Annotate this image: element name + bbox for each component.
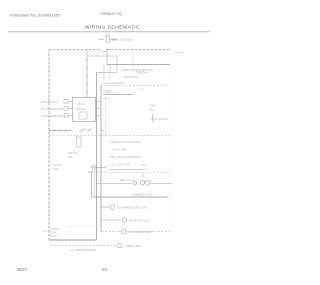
svg-text:DEF TSTAT: DEF TSTAT <box>124 75 139 79</box>
door switch contacts <box>79 129 93 132</box>
cord strain relief loop <box>100 50 107 52</box>
lamp labels column <box>110 140 141 167</box>
damper switch <box>150 115 168 123</box>
fuse holder <box>77 137 82 147</box>
wire branch y172.5 dashed <box>97 172 172 174</box>
control board right pins <box>95 102 101 116</box>
svg-text:9V: 9V <box>150 108 154 112</box>
svg-text:L1 N G: L1 N G <box>175 51 185 55</box>
wire drop (x117) <box>116 56 118 73</box>
svg-text:MTR MONITOR D: MTR MONITOR D <box>41 114 66 118</box>
wire drop (x133) <box>132 50 134 73</box>
wire L1 bus (x87) <box>86 50 88 98</box>
svg-text:( ) 120V 2W: ( ) 120V 2W <box>110 148 126 152</box>
svg-text:REF LIGHT 40W 60HZ: REF LIGHT 40W 60HZ <box>110 155 141 159</box>
cabinet boundary bottom edge <box>49 239 97 241</box>
svg-text:COLD CONTROL: COLD CONTROL <box>103 81 125 85</box>
svg-text:Publication No. 5995421257: Publication No. 5995421257 <box>10 13 61 18</box>
svg-text:3R 5L: 3R 5L <box>78 102 85 106</box>
compressor terminal text <box>50 227 59 238</box>
wire neutral bus (x96.5) <box>96 73 98 241</box>
run capacitor <box>90 165 106 171</box>
overload protector circles <box>133 180 150 185</box>
evaporator fan motor <box>101 218 127 223</box>
svg-text:DEFROST HEATER 120V: DEFROST HEATER 120V <box>122 68 153 72</box>
svg-text:( ) ( ) 120V SW: ( ) ( ) 120V SW <box>110 163 130 167</box>
wire drop dashed (x105.5) <box>105 98 107 136</box>
svg-text:L1 4 3: L1 4 3 <box>103 97 111 101</box>
bottom dashed stub y226.5 <box>68 226 101 228</box>
wire branch y56 <box>87 55 117 57</box>
wire branch y64.5 (main light circuit) <box>107 64 170 66</box>
svg-text:SW: SW <box>53 167 58 171</box>
wire drop to freezer branch (x107) <box>106 50 108 65</box>
svg-text:COND FAN 120V: COND FAN 120V <box>128 230 151 234</box>
wire line bus (x101) <box>100 86 102 232</box>
right column labels <box>150 104 157 112</box>
cabinet boundary top edge <box>49 49 172 51</box>
connector block labels <box>41 100 66 118</box>
defrost heater element <box>136 71 148 74</box>
svg-text:WIRING SCHEMATIC: WIRING SCHEMATIC <box>85 25 140 31</box>
control board pins <box>76 102 87 111</box>
defrost timer motor <box>51 243 122 248</box>
wire branch y72.5 <box>97 72 118 74</box>
bus tick marks <box>86 60 89 92</box>
overload wire <box>150 183 172 185</box>
wire branch y130.5 <box>49 130 73 132</box>
connector pin boxes <box>64 100 73 118</box>
svg-text:DC SOLENOID L: DC SOLENOID L <box>41 107 65 111</box>
lamp wire y169.5 <box>110 169 146 171</box>
svg-text:EVAP FAN 12V: EVAP FAN 12V <box>129 219 150 223</box>
right labels mid <box>141 163 146 178</box>
cabinet boundary right edge <box>171 50 173 233</box>
svg-text:120V 60HZ: 120V 60HZ <box>120 38 134 42</box>
wire stub y172 <box>88 171 97 173</box>
svg-text:ALL WIRING SHOWN: ALL WIRING SHOWN <box>70 248 96 252</box>
svg-text:4 3: 4 3 <box>140 88 144 92</box>
svg-text:FRS6LF7JQ: FRS6LF7JQ <box>100 11 122 16</box>
svg-text:SW: SW <box>141 163 146 167</box>
power cord plug <box>99 36 118 42</box>
branch tick marks <box>54 129 66 132</box>
right dashed y197.5 <box>140 197 171 199</box>
thermostat sense line <box>104 92 118 94</box>
control board box <box>73 98 96 122</box>
defrost thermostat contacts <box>103 65 112 79</box>
svg-text:SW: SW <box>68 155 73 159</box>
header rule <box>8 31 210 33</box>
svg-text:RELAY OL: RELAY OL <box>120 178 135 182</box>
svg-text:COMPRESSOR 120V: COMPRESSOR 120V <box>117 206 147 210</box>
wire stub y130.5 right <box>100 130 104 132</box>
svg-text:60HZ: 60HZ <box>50 234 57 238</box>
svg-text:CABINET GND: CABINET GND <box>132 193 153 197</box>
wire branch y135.5 dashed <box>49 135 171 137</box>
freezer lights text <box>53 151 78 171</box>
svg-text:FZR LIGHT 40W 60HZ: FZR LIGHT 40W 60HZ <box>110 140 141 144</box>
wire branch y85.5 dashed <box>101 85 166 87</box>
svg-text:TIMER 120V: TIMER 120V <box>124 244 141 248</box>
svg-text:6027: 6027 <box>17 267 28 272</box>
svg-text:OL: OL <box>141 174 145 178</box>
relay coil line y183.5 <box>97 183 133 185</box>
svg-text:AIR DOOR 2: AIR DOOR 2 <box>41 100 59 104</box>
ground wire y197 <box>92 196 168 198</box>
control board inner relay <box>79 112 87 119</box>
condenser fan motor <box>102 229 171 234</box>
compressor motor <box>101 205 115 210</box>
svg-text:22: 22 <box>102 267 108 272</box>
wire stub left of cabinet <box>43 230 47 232</box>
svg-text:120 NEU: 120 NEU <box>76 107 87 111</box>
thermostat wire y94.5 <box>103 94 134 96</box>
cabinet boundary left edge <box>48 50 50 241</box>
compressor relay box <box>92 172 95 197</box>
